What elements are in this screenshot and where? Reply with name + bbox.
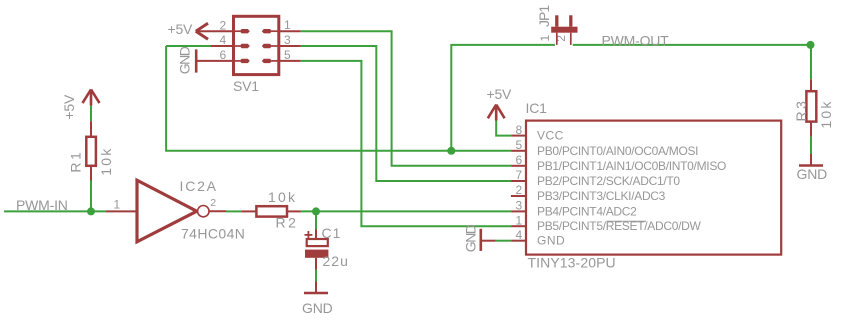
svg-text:5: 5: [284, 48, 291, 62]
inverter triangle 74HC04 gate: [137, 180, 197, 242]
svg-text:10k: 10k: [268, 189, 297, 205]
inverter bubble: [198, 206, 209, 217]
svg-text:GND: GND: [797, 166, 828, 182]
resistor R3: [806, 91, 816, 121]
svg-text:GND: GND: [537, 234, 565, 248]
svg-text:TINY13-20PU: TINY13-20PU: [528, 255, 616, 271]
resistor R1: [86, 137, 96, 166]
wire IC1 pin4 to GND: [496, 240, 512, 242]
svg-text:PB0/PCINT0/AIN0/OC0A/MOSI: PB0/PCINT0/AIN0/OC0A/MOSI: [537, 144, 698, 158]
connector SV1 box: [234, 16, 279, 74]
wire net SV1.5 to IC1.PB5: [301, 61, 512, 226]
svg-text:VCC: VCC: [537, 129, 564, 143]
wire SV1 pin2 to +5V: [197, 30, 235, 32]
svg-text:10k: 10k: [98, 147, 114, 176]
wire SV1 pin6 to GND: [196, 60, 234, 62]
svg-text:4: 4: [516, 228, 523, 242]
wire PWM-OUT left segment to vertical: [451, 45, 555, 151]
wire output pin 2: [209, 210, 226, 212]
wire JP1 pin1 stub: [556, 33, 558, 45]
wire +5V to IC1 pin 8: [496, 121, 511, 136]
wire PWM-IN horizontal: [4, 210, 106, 212]
ground below R3: [799, 154, 823, 166]
wire net SV1.4 to IC1.PB0 vertical: [166, 46, 511, 151]
svg-text:R2: R2: [276, 215, 299, 231]
svg-text:2: 2: [516, 183, 523, 197]
svg-text:74HC04N: 74HC04N: [181, 226, 245, 242]
overline on RESET: [607, 220, 647, 222]
supply +5V at R1: [83, 89, 100, 105]
node junction PWM-IN / R1: [87, 207, 95, 215]
SV1 pad stubs to box edges: [235, 31, 279, 61]
ground at SV1 pin6: [195, 49, 198, 72]
svg-text:SV1: SV1: [233, 78, 259, 94]
capacitor C1 plus sign: [305, 231, 313, 239]
svg-text:PB3/PCINT3/CLKI/ADC3: PB3/PCINT3/CLKI/ADC3: [537, 189, 666, 203]
capacitor C1 bottom plate: [305, 250, 328, 258]
svg-text:GND: GND: [463, 224, 479, 252]
svg-text:IC1: IC1: [526, 100, 548, 116]
svg-text:PWM-OUT: PWM-OUT: [602, 33, 670, 49]
svg-text:+5V: +5V: [487, 86, 513, 102]
wire junction up to R1: [90, 181, 92, 212]
resistor R2: [256, 206, 287, 216]
wire green C1 to GND: [315, 270, 317, 284]
wire R1 bottom lead: [90, 166, 92, 181]
capacitor C1 top plate: [307, 239, 328, 246]
svg-text:2: 2: [210, 197, 216, 209]
svg-text:10k: 10k: [818, 99, 834, 128]
node junction PWM-OUT / R3: [807, 41, 815, 49]
svg-text:PWM-IN: PWM-IN: [16, 197, 68, 213]
IC1 box TINY13: [526, 121, 781, 255]
wire R3 bottom lead: [810, 122, 812, 137]
wire green gate to R2: [226, 210, 241, 212]
SV1 pads row3: [240, 59, 250, 63]
supply +5V at IC1: [488, 105, 505, 121]
svg-text:GND: GND: [177, 46, 193, 74]
svg-text:PB2/PCINT2/SCK/ADC1/T0: PB2/PCINT2/SCK/ADC1/T0: [537, 174, 680, 188]
wire C1 bottom lead: [315, 258, 317, 270]
wire JP1 pin2 stub: [570, 33, 572, 45]
svg-text:JP1: JP1: [536, 5, 552, 27]
svg-text:C1: C1: [322, 225, 342, 241]
SV1 pads row2: [240, 44, 250, 48]
svg-text:2: 2: [220, 18, 227, 32]
wire green to +5V: [90, 106, 92, 121]
SV1 pads row1: [240, 29, 272, 63]
pin numbers of IC1: [516, 123, 523, 242]
svg-text:22u: 22u: [323, 253, 349, 269]
wire R1 top lead: [90, 121, 92, 137]
svg-text:1: 1: [538, 35, 552, 42]
wire green R2 to junction and on to IC pin 3: [301, 210, 512, 212]
wire net SV1.3 to IC1.PB2: [301, 46, 512, 181]
svg-text:3: 3: [284, 33, 291, 47]
svg-text:7: 7: [516, 168, 523, 182]
ground at IC1 pin4: [479, 229, 482, 251]
wire SV1 pin4 green: [166, 45, 211, 47]
svg-text:6: 6: [220, 48, 227, 62]
svg-text:+5V: +5V: [61, 94, 77, 120]
wire R2 left lead: [241, 210, 256, 212]
wire SV1 right stubs pins 1,3,5: [279, 30, 301, 32]
svg-text:R3: R3: [793, 99, 809, 122]
svg-text:4: 4: [220, 33, 227, 47]
wire R2 right lead: [287, 210, 301, 212]
svg-text:R1: R1: [68, 150, 84, 173]
supply +5V arrow left at SV1: [196, 23, 208, 39]
svg-text:1: 1: [284, 18, 291, 32]
wire green R3 to GND: [810, 137, 812, 154]
svg-text:IC2A: IC2A: [180, 178, 218, 194]
wire junction down to R3: [810, 45, 812, 79]
svg-text:PB4/PCINT4/ADC2: PB4/PCINT4/ADC2: [537, 204, 637, 218]
svg-text:1: 1: [516, 213, 523, 227]
ground below C1: [304, 282, 328, 294]
wire C1 top lead: [315, 230, 317, 240]
op-amp inverter IC2A input pin 1: [106, 210, 137, 212]
wire IC1 pin stubs red: [511, 136, 527, 241]
wire junction down to C1: [315, 211, 317, 229]
svg-text:8: 8: [516, 123, 523, 137]
wire R3 top lead: [810, 79, 812, 91]
svg-text:1: 1: [114, 198, 121, 212]
wire net SV1.1 to IC1.PB1: [301, 31, 512, 166]
svg-text:5: 5: [516, 138, 523, 152]
svg-text:+5V: +5V: [168, 21, 194, 37]
jumper JP1: [551, 27, 577, 33]
svg-text:3: 3: [516, 199, 523, 213]
wire PWM-OUT right segment: [573, 44, 811, 46]
svg-text:6: 6: [516, 153, 523, 167]
node junction R2 / C1: [312, 207, 320, 215]
pin labels of IC1: [537, 129, 726, 248]
svg-text:GND: GND: [302, 300, 333, 316]
svg-text:PB1/PCINT1/AIN1/OC0B/INT0/MISO: PB1/PCINT1/AIN1/OC0B/INT0/MISO: [537, 159, 726, 173]
node junction PB0 row / PWM-OUT vertical: [447, 147, 455, 155]
